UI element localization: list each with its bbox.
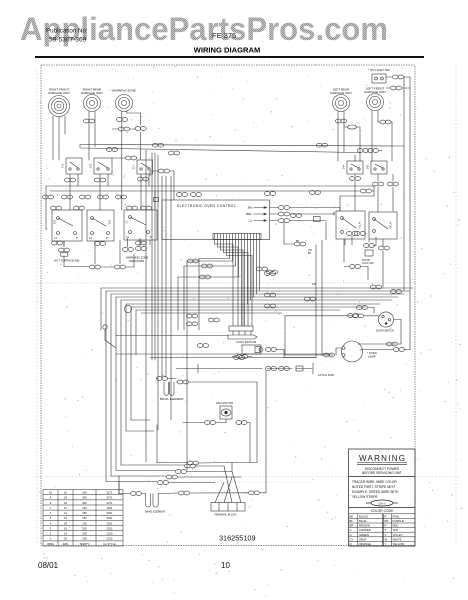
warning body text [352,480,399,499]
wire right vertical rails [339,208,341,211]
svg-text:S2B: S2B [109,219,112,224]
oven light switch [372,74,410,344]
EOC output splices right [294,242,300,246]
bake element label [145,510,166,514]
svg-text:PINK: PINK [393,514,400,518]
lock motor box [242,345,284,358]
warming zone indicator lamp [122,238,146,251]
EOC terminal labels BA BRL L1 [246,206,252,223]
svg-text:3321: 3321 [107,526,113,530]
lock motor label [236,340,257,344]
terminal block feed connectors [248,491,254,495]
warming zone surface unit coil [116,95,147,211]
terminal block label [214,513,237,517]
svg-text:GY: GY [350,537,354,541]
svg-text:LATCH ROD: LATCH ROD [318,373,334,377]
color code header [371,509,395,513]
svg-text:3321: 3321 [107,511,113,515]
relay lower splice [343,239,345,262]
svg-text:12: 12 [64,506,67,510]
broil element [156,377,257,472]
oven lamp [322,341,363,362]
svg-text:TEMP°C: TEMP°C [79,542,89,546]
cascading connector row 2 [116,470,175,472]
svg-text:3271: 3271 [107,496,113,500]
left front surface unit coil [367,94,393,162]
svg-text:16: 16 [64,491,67,495]
bus connectors [187,259,193,263]
connectors under switch blocks [51,241,57,245]
svg-text:BLUE: BLUE [359,519,366,523]
svg-text:59-5367-369: 59-5367-369 [49,37,87,44]
svg-text:BLACK: BLACK [359,514,368,518]
bake relay box [336,211,365,239]
svg-text:BROIL ELEMENT: BROIL ELEMENT [160,397,184,401]
svg-text:DOOR SWITCH: DOOR SWITCH [376,330,394,333]
warming zone indicator label [126,256,148,264]
indicator connectors [89,265,95,269]
door lock switch label [362,259,374,265]
part number 316255109 [219,534,256,543]
wire diagonal jog [152,153,171,430]
surface switch block S2B [87,210,114,241]
connector below S4B [372,182,378,186]
wire bus left drops [100,288,102,330]
cascading connector row 1 [121,464,184,466]
svg-text:3321: 3321 [107,521,113,525]
svg-text:COPPER: COPPER [359,528,371,532]
svg-text:14: 14 [64,511,67,515]
wire EOC pin fanout [215,240,260,327]
svg-text:YELLOW STRIPE: YELLOW STRIPE [352,495,378,499]
wire drops left cluster [69,174,71,210]
model number text [212,31,236,40]
svg-text:G: G [350,533,352,537]
wire right lower loop [321,240,323,355]
mid rail connectors [197,344,203,348]
svg-text:SURFACE UNIT: SURFACE UNIT [330,91,352,95]
svg-text:RED: RED [393,524,399,528]
wire right rails [403,146,405,291]
wire top bus 2 [81,148,360,153]
svg-text:BK: BK [308,252,312,255]
svg-text:FAN MOTOR: FAN MOTOR [216,401,233,405]
svg-text:ELECTRONIC OVEN CONTROL: ELECTRONIC OVEN CONTROL [177,204,236,208]
surface switch S1A (right front) [62,158,83,174]
svg-text:GREEN: GREEN [359,533,369,537]
svg-text:08/01: 08/01 [38,561,59,570]
svg-text:TRACER WIRE: WIRE COLOR: TRACER WIRE: WIRE COLOR [352,480,397,484]
title underline [35,56,424,58]
svg-text:COLOR CODE: COLOR CODE [371,509,395,513]
wire mid rails [116,353,330,355]
svg-text:BAKE ELEMENT: BAKE ELEMENT [145,510,166,514]
svg-text:ORANGE: ORANGE [359,542,371,546]
lamp holder circle [124,305,131,312]
svg-text:150: 150 [82,511,87,515]
hot surface indicator lamp [58,241,69,267]
warning example connector text [378,501,386,505]
bake element [119,491,248,507]
latch rod label [318,373,334,377]
svg-text:16: 16 [64,532,67,536]
connector below S1A [64,178,70,182]
electronic oven control label [177,204,236,208]
EOC output connectors [278,206,284,210]
surface switch block S2A [52,210,82,246]
svg-text:1015: 1015 [107,532,113,536]
surface unit labels [48,87,386,96]
surface switch S1B (right rear) [90,158,113,174]
connector row 2 [50,206,56,210]
broil element label [160,397,184,401]
svg-text:316255109: 316255109 [219,534,256,543]
surface switch S4B (left front) [367,161,388,174]
svg-text:300: 300 [82,501,87,505]
svg-text:16: 16 [64,516,67,520]
svg-text:BR: BR [350,524,354,528]
wire to lamp left [284,316,286,355]
footer page 10 [221,561,230,570]
svg-text:WIRING DIAGRAM: WIRING DIAGRAM [194,46,261,55]
svg-text:S1C: S1C [133,164,136,169]
svg-text:V: V [385,533,387,537]
oven door switch [285,306,401,344]
warming zone switch S5 [112,156,153,174]
svg-text:GN-Y: GN-Y [378,501,386,505]
warning title [359,454,405,463]
terminal block [211,466,248,511]
wire gauge table text [47,491,116,546]
svg-text:200: 200 [82,491,87,495]
oven lamp right connector [393,348,399,352]
broil relay box [369,212,397,239]
watermark AppliancePartsPros.com [20,11,388,47]
svg-text:20: 20 [64,501,67,505]
svg-text:20: 20 [64,521,67,525]
svg-text:S1A: S1A [62,163,65,168]
svg-text:Y: Y [385,542,387,546]
cascading connector row 3 [111,475,166,477]
svg-text:3271: 3271 [107,491,113,495]
fold line [36,477,460,483]
svg-text:3271: 3271 [107,501,113,505]
svg-text:LOCK MOTOR: LOCK MOTOR [236,340,257,344]
svg-text:WHITE: WHITE [393,537,402,541]
latch rod [176,363,313,374]
svg-text:P: P [76,236,78,240]
svg-text:10: 10 [49,491,52,495]
svg-text:L1: L1 [249,219,253,223]
warning box frame [349,449,416,546]
connector below S4A [349,177,355,181]
connector below S1B [94,178,100,182]
svg-text:Publication No:: Publication No: [46,28,88,35]
door lock plug connector [228,244,257,339]
svg-text:LOCK SW: LOCK SW [362,262,374,265]
fan motor [183,406,250,424]
svg-text:WARMING ZONE: WARMING ZONE [112,89,136,93]
wire into EOC top [150,170,158,172]
connectors near EOC top [176,193,182,197]
right front surface unit coil [49,96,70,161]
svg-text:1015: 1015 [107,537,113,541]
cascading connector row 4 [106,481,157,483]
wire cross ties [46,185,374,187]
terminal labels under blocks [54,235,152,240]
EOC terminal arrows [254,207,265,209]
svg-text:BL: BL [350,519,354,523]
svg-text:C: C [350,528,352,532]
hot surface indicator label [54,259,79,263]
oven door switch label [376,330,394,333]
svg-text:INDICATOR: INDICATOR [129,259,144,263]
svg-text:TERMINAL BLOCK: TERMINAL BLOCK [214,513,237,517]
svg-text:LAMP: LAMP [368,355,376,359]
warning subtitle [362,467,402,475]
svg-text:SURFACE UNIT: SURFACE UNIT [81,91,103,95]
svg-text:* OV LIGHT SW: * OV LIGHT SW [368,68,390,72]
svg-text:105: 105 [82,532,87,536]
svg-text:105: 105 [82,537,87,541]
surface switch S4A (left rear) [343,149,383,174]
svg-text:YELLOW: YELLOW [393,542,405,546]
svg-text:SURFACE UNIT: SURFACE UNIT [364,90,386,94]
svg-text:P: P [385,514,387,518]
svg-text:S2A: S2A [54,219,57,224]
wire color labels [296,240,316,286]
right rear surface unit coil [83,95,100,161]
wire center bus [101,288,413,313]
wire top bus splice [118,127,124,131]
svg-text:GRAY: GRAY [359,537,367,541]
svg-text:SURFACE UNIT: SURFACE UNIT [48,91,70,95]
svg-text:WIRE: WIRE [47,542,54,546]
oven light switch label [368,68,390,72]
footer date 08/01 [38,561,59,570]
wire lower left verticals [145,150,147,462]
svg-text:S4B: S4B [367,164,370,169]
warning example connector [366,500,398,506]
svg-text:W: W [385,537,388,541]
svg-text:UL STYLE: UL STYLE [103,542,115,546]
fold line [36,282,416,284]
svg-text:18: 18 [64,496,67,500]
svg-text:S1B: S1B [90,163,93,168]
connector below S5 [137,177,143,181]
svg-text:BRL: BRL [246,212,252,216]
lock motor lower connectors [236,355,242,359]
diagram border frame [41,65,415,546]
svg-text:HOT SURFACE IND: HOT SURFACE IND [54,259,79,263]
wire EOC to relays [339,196,341,208]
svg-text:3321: 3321 [107,506,113,510]
electronic oven control box [162,200,270,240]
warning title underline [357,463,407,465]
svg-text:RELAY: RELAY [390,221,393,229]
svg-text:EXAMPLE: GREEN WIRE WITH: EXAMPLE: GREEN WIRE WITH [352,490,399,494]
svg-text:18: 18 [64,526,67,530]
svg-text:TAN: TAN [393,528,398,532]
wire right drop [403,77,405,146]
left rear surface unit coil [333,95,361,162]
svg-text:R: R [385,524,387,528]
svg-text:RELAY: RELAY [359,221,362,229]
svg-text:150: 150 [82,516,87,520]
svg-text:300: 300 [82,496,87,500]
svg-text:S4A: S4A [343,164,346,169]
svg-text:T: T [385,528,387,532]
relay bottom connectors [346,232,352,236]
scan artifact margin dots [37,66,456,545]
surface switch block S3 [124,210,157,245]
wire fan jogs [215,243,234,245]
wire gauge table [43,490,123,546]
EOC pin header strip [213,234,261,240]
fan motor label [216,401,233,405]
svg-text:150: 150 [82,506,87,510]
svg-text:20: 20 [64,537,67,541]
svg-text:AWG: AWG [62,542,68,546]
svg-text:105: 105 [82,526,87,530]
svg-text:150: 150 [82,521,87,525]
svg-text:BA: BA [248,206,252,210]
oven lamp label [367,351,377,359]
oven lamp wires [358,343,396,345]
publication number text [46,28,88,44]
svg-text:WARNING: WARNING [359,454,405,463]
svg-text:PR: PR [385,519,389,523]
wire bottom feed [118,476,120,494]
connector row [42,195,48,199]
svg-text:BROWN: BROWN [359,524,370,528]
color code table grid [349,514,416,546]
wire lower rect path [156,425,158,463]
svg-text:FE 375: FE 375 [212,31,236,40]
svg-text:P: P [106,236,108,240]
svg-text:NOTED FIRST, STRIPE NEXT: NOTED FIRST, STRIPE NEXT [352,485,396,489]
title WIRING DIAGRAM [194,46,261,55]
svg-text:OR: OR [312,283,316,286]
door lock switch [363,237,389,256]
svg-text:3321: 3321 [107,516,113,520]
svg-text:10: 10 [221,561,230,570]
svg-text:BK: BK [350,514,354,518]
color code table text [350,514,405,546]
svg-text:VIOLET: VIOLET [393,533,403,537]
svg-text:PURPLE: PURPLE [393,519,404,523]
wire top bus 1 [80,145,404,147]
wire bend terminal [103,325,116,348]
svg-text:BEFORE SERVICING UNIT: BEFORE SERVICING UNIT [362,471,402,475]
